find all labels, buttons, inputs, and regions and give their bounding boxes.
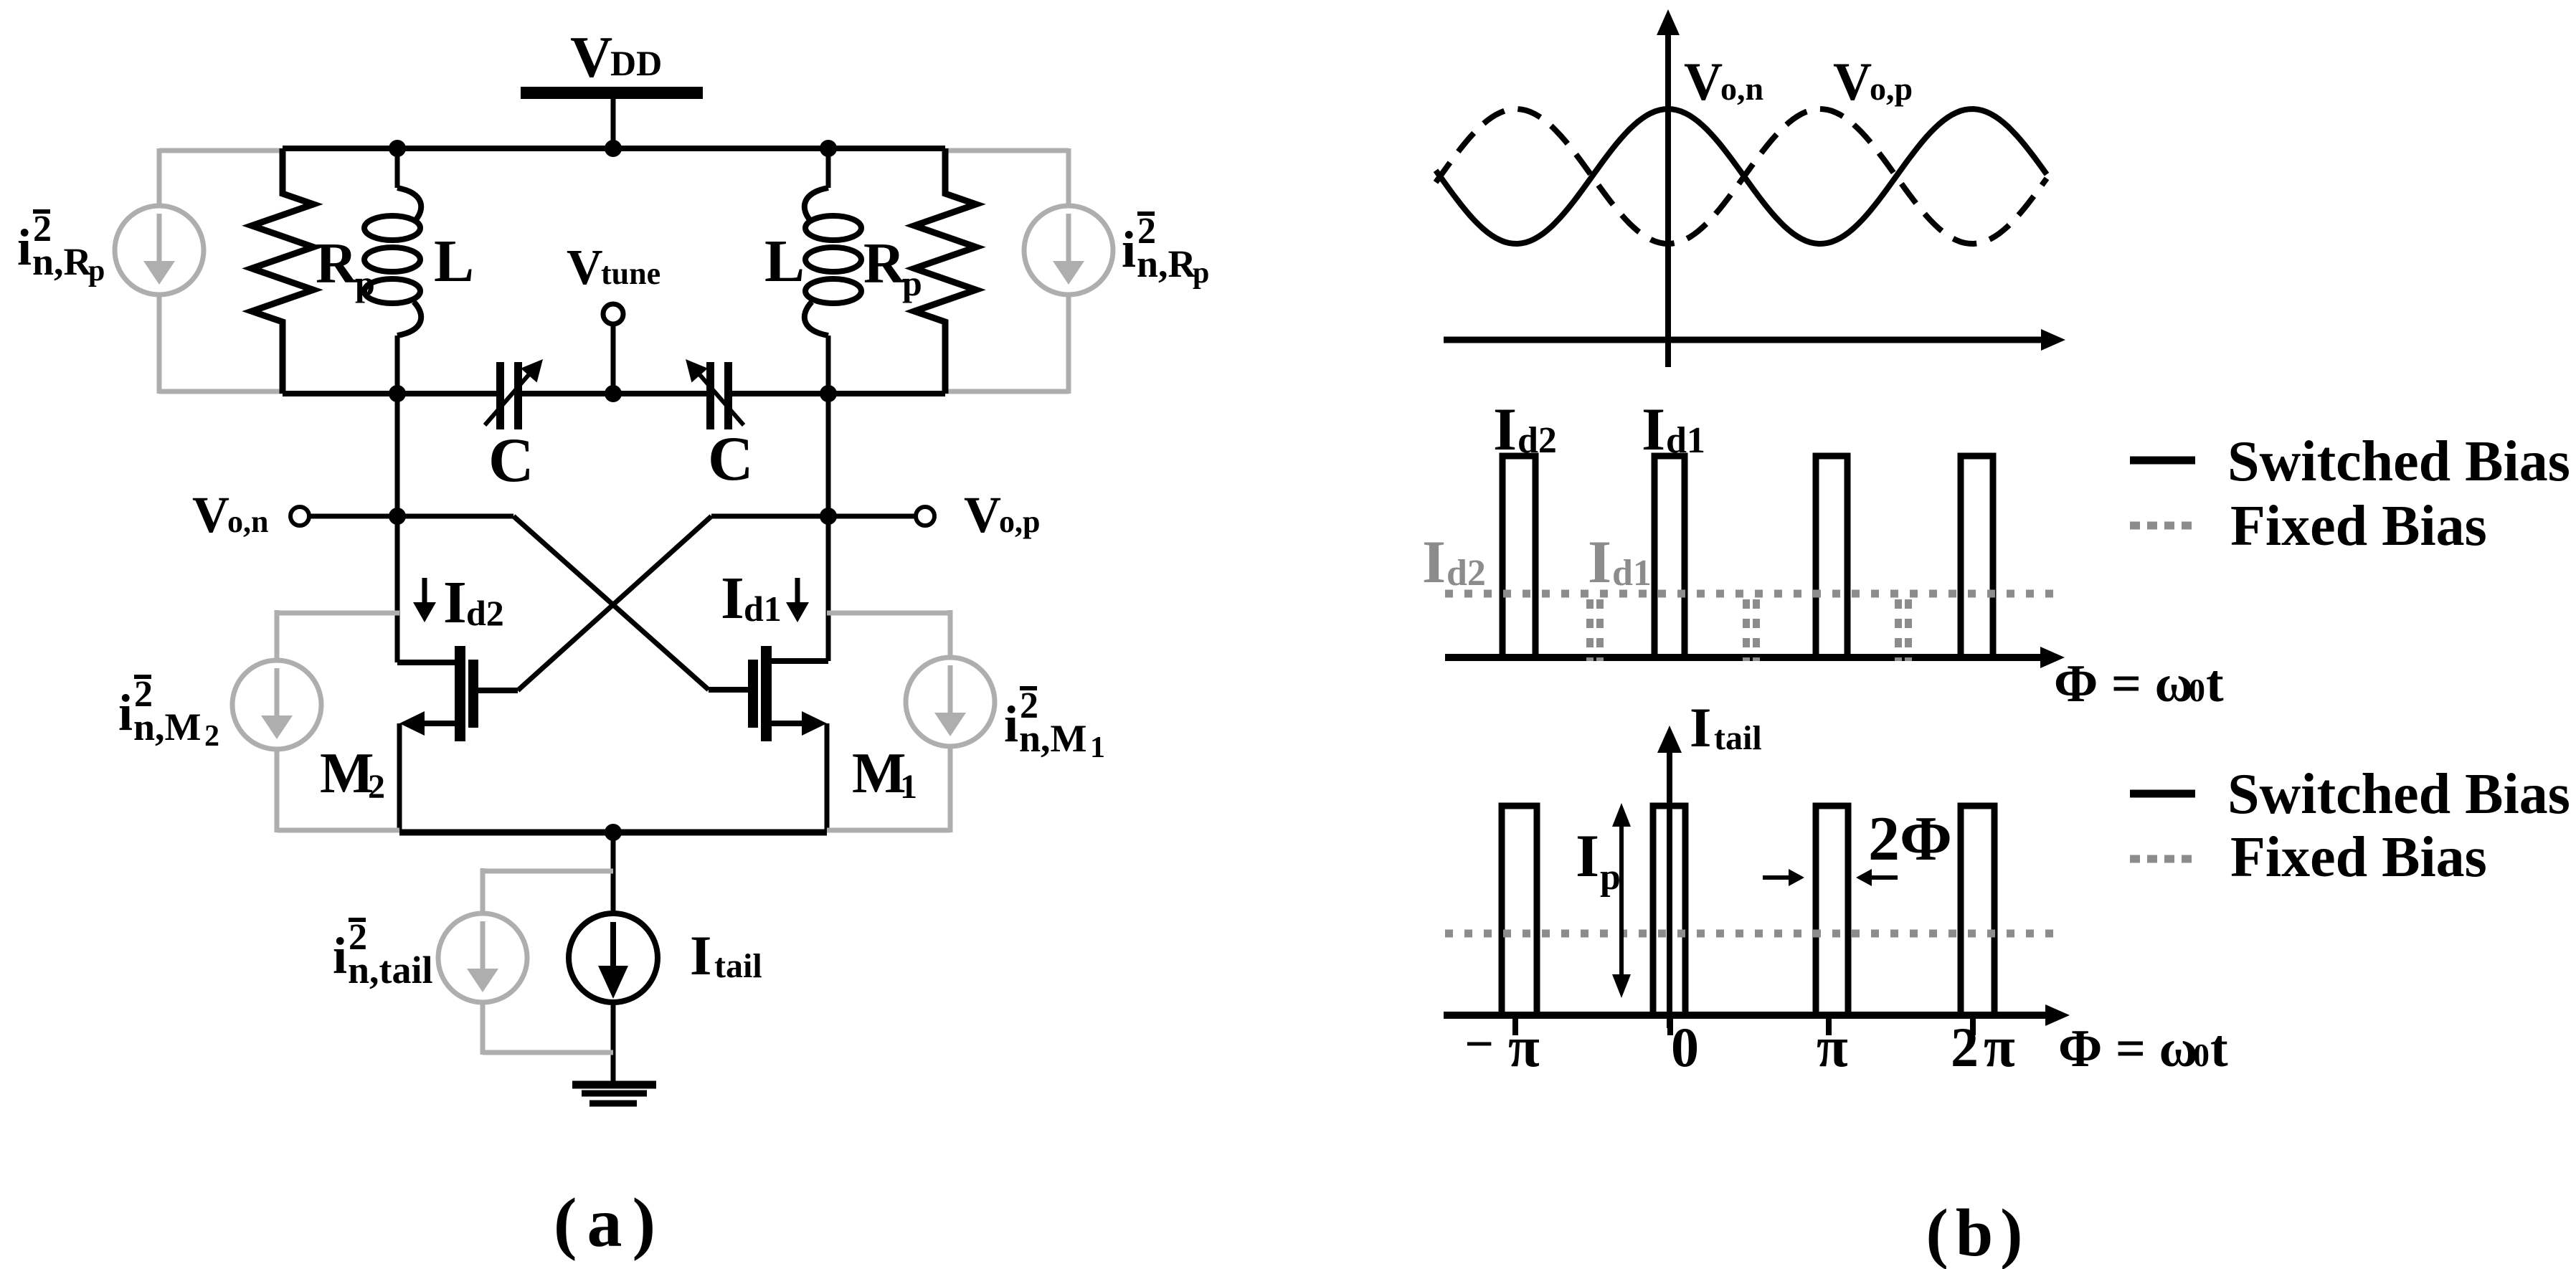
axis horizontal (middle plot)	[1445, 647, 2065, 668]
svg-text:Switched Bias: Switched Bias	[2227, 763, 2570, 826]
svg-text:d1: d1	[1612, 553, 1652, 594]
svg-text:I: I	[1690, 696, 1711, 759]
label i2n,M1	[1004, 685, 1105, 764]
tick mark (bottom plot)	[1970, 1019, 1976, 1035]
wire gray loop of M1 noise source	[827, 610, 950, 832]
arrow pulse-width right (points left)	[1856, 869, 1898, 886]
node Vtune junction	[605, 385, 622, 402]
fixed-bias level line (gray dotted, middle plot)	[1445, 590, 2055, 598]
svg-text:o,n: o,n	[1720, 70, 1763, 107]
node tail junction	[605, 824, 622, 841]
wire tail node to Itail source	[611, 832, 616, 913]
wire common source rail	[399, 830, 827, 836]
caption (b)	[1926, 1196, 2030, 1269]
resistor Rp right	[914, 148, 976, 394]
svg-text:DD: DD	[610, 43, 662, 83]
transistor M2	[397, 646, 518, 832]
svg-text:Φ = ω: Φ = ω	[2058, 1020, 2198, 1078]
label Id1 (middle, black)	[1642, 396, 1705, 463]
svg-text:i: i	[118, 684, 133, 741]
wire cross-couple right stub	[711, 514, 828, 519]
axis horizontal (bottom plot)	[1444, 1004, 2070, 1026]
svg-text:Fixed Bias: Fixed Bias	[2230, 495, 2487, 558]
label i2n,tail	[333, 917, 433, 992]
svg-text:p: p	[88, 255, 105, 287]
svg-text:i: i	[333, 927, 347, 984]
label i2n,Rp right	[1122, 211, 1209, 290]
svg-text:n,M: n,M	[133, 705, 202, 748]
terminal Vo,n (open circle)	[290, 507, 309, 526]
tick label 0	[1671, 1016, 1699, 1078]
svg-text:M: M	[320, 742, 374, 805]
svg-text:M: M	[852, 742, 906, 805]
svg-text:π: π	[1817, 1016, 1848, 1079]
label Vo,n (plot)	[1684, 52, 1763, 112]
svg-text:d2: d2	[466, 593, 504, 633]
legend 1 switched bias	[2130, 430, 2570, 493]
svg-text:V: V	[192, 486, 229, 543]
wire Itail to ground	[611, 1002, 616, 1081]
wire tank bottom rail (right segment)	[732, 391, 945, 396]
svg-text:V: V	[1833, 52, 1872, 112]
label L right	[764, 228, 805, 295]
label L left	[434, 228, 474, 295]
label Id2	[443, 569, 504, 636]
axis vertical (top plot)	[1657, 9, 1680, 367]
svg-text:tail: tail	[714, 947, 762, 985]
svg-text:d2: d2	[1517, 420, 1557, 461]
svg-text:I: I	[690, 924, 711, 987]
wire cross-couple diagonal to M2 gate	[518, 516, 711, 690]
svg-text:(a): (a)	[554, 1184, 666, 1262]
tick label pi	[1817, 1016, 1848, 1079]
wire Vtune to rail	[611, 323, 616, 394]
axis horizontal (top plot)	[1444, 329, 2065, 351]
svg-text:i: i	[17, 219, 32, 276]
wire gray loop of left noise source	[159, 148, 283, 394]
wire top rail	[283, 146, 945, 151]
svg-text:d2: d2	[1446, 553, 1486, 594]
node Vo,n	[389, 508, 406, 525]
label Itail	[690, 924, 762, 987]
fixed-bias pulse (gray dashed, middle plot)	[1746, 599, 1756, 661]
svg-text:C: C	[708, 424, 754, 494]
label C right	[708, 424, 754, 494]
svg-text:V: V	[570, 24, 612, 90]
node tank bottom left	[389, 385, 406, 402]
wire right column (tank to drain)	[826, 394, 831, 661]
pulse Id 3 (middle plot)	[1816, 456, 1847, 657]
tick mark (bottom plot)	[1512, 1019, 1518, 1035]
svg-text:p: p	[1600, 857, 1621, 898]
label Id1 (middle, gray)	[1588, 528, 1652, 596]
wire tank bottom rail (left segment)	[283, 391, 496, 396]
tick mark (bottom plot)	[1826, 1019, 1832, 1035]
waveform Vo,p (dashed sine)	[1436, 109, 2047, 244]
label M2	[320, 742, 385, 806]
svg-text:n,M: n,M	[1019, 717, 1087, 760]
svg-text:2: 2	[1951, 1016, 1979, 1078]
svg-text:t: t	[2210, 1020, 2228, 1078]
ground	[572, 1085, 656, 1103]
arrow Id2 (down)	[413, 578, 436, 622]
svg-text:p: p	[1193, 257, 1209, 290]
svg-text:I: I	[721, 565, 744, 632]
svg-text:2: 2	[204, 720, 219, 753]
pulse Id 4 (middle plot)	[1961, 456, 1993, 657]
wire Vo,n stub	[309, 514, 397, 519]
current source i2n,Rp left (gray circle with down arrow)	[115, 206, 204, 295]
tick label 2pi	[1951, 1016, 2015, 1079]
axis vertical Itail (bottom plot)	[1657, 726, 1682, 1028]
current source i2n,tail (gray circle with down arrow)	[438, 913, 527, 1002]
svg-text:i: i	[1004, 695, 1018, 753]
label Vtune	[567, 240, 660, 295]
power supply VDD bar	[521, 87, 703, 99]
pulse Itail 2 (bottom plot)	[1653, 806, 1685, 1015]
wire Vo,p stub	[828, 514, 916, 519]
label Vo,p	[964, 486, 1040, 543]
svg-text:I: I	[1642, 396, 1665, 463]
svg-text:I: I	[1576, 822, 1599, 890]
current source i2n,Rp right (gray circle with down arrow)	[1024, 206, 1113, 295]
svg-text:o,n: o,n	[227, 504, 268, 539]
label M1	[852, 742, 917, 806]
svg-text:d1: d1	[744, 589, 782, 629]
svg-text:p: p	[902, 263, 922, 303]
wire tank bottom rail (centre segment)	[522, 391, 706, 396]
wire VDD bar to top rail	[611, 99, 616, 148]
svg-text:V: V	[1684, 52, 1723, 112]
svg-text:n,R: n,R	[32, 240, 93, 283]
label Id2 (middle, gray)	[1422, 528, 1486, 596]
svg-text:2Φ: 2Φ	[1868, 804, 1952, 874]
fixed-bias pulse (gray dashed, middle plot)	[1898, 599, 1908, 661]
svg-text:0: 0	[2193, 1037, 2210, 1073]
label 2Phi	[1868, 804, 1952, 874]
node top-right (tank R)	[820, 140, 837, 157]
inductor L left	[364, 148, 421, 394]
fixed-bias level line (gray dotted, bottom plot)	[1445, 930, 2058, 938]
label i2n,M2	[118, 674, 219, 753]
node top-centre (VDD)	[605, 140, 622, 157]
vdd label VDD	[570, 24, 662, 90]
wire gray loop of M2 noise source	[277, 610, 399, 832]
label Id2 (middle, black)	[1493, 396, 1557, 463]
svg-text:1: 1	[900, 768, 917, 806]
node top-left (tank L)	[389, 140, 406, 157]
svg-text:Φ = ω: Φ = ω	[2054, 655, 2194, 713]
wire gray loop of tail noise source	[483, 868, 613, 1055]
label Id1	[721, 565, 782, 632]
arrow Ip (double-headed)	[1612, 803, 1631, 998]
node Vo,p	[820, 508, 837, 525]
legend 2 switched bias	[2130, 763, 2570, 826]
label i2n,Rp left	[17, 209, 105, 287]
current source i2n,M2 (gray circle with down arrow)	[232, 660, 321, 749]
svg-text:i: i	[1122, 221, 1136, 278]
axis label Phi = w0t (middle plot)	[2054, 655, 2224, 713]
arrow Id1 (down)	[786, 578, 809, 622]
wire cross-couple diagonal to M1 gate	[513, 516, 709, 690]
svg-text:n,R: n,R	[1137, 242, 1197, 285]
transistor M1	[709, 646, 828, 832]
fixed-bias pulse (gray dashed, middle plot)	[1590, 599, 1600, 661]
svg-text:C: C	[488, 426, 534, 495]
label Rp right	[863, 232, 922, 303]
wire gray loop of right noise source	[945, 148, 1069, 394]
legend 1 fixed bias	[2130, 495, 2487, 558]
wire cross-couple left stub	[397, 514, 513, 519]
svg-text:n,tail: n,tail	[348, 949, 433, 992]
pulse Id 1 (middle plot)	[1502, 456, 1535, 657]
tick label -pi	[1464, 1015, 1540, 1079]
inductor L right	[805, 148, 861, 394]
svg-text:R: R	[316, 232, 358, 295]
node tank bottom right	[820, 385, 837, 402]
caption (a)	[554, 1184, 666, 1262]
svg-text:(b): (b)	[1926, 1196, 2030, 1269]
svg-text:t: t	[2206, 655, 2224, 713]
varactor C right	[686, 359, 744, 429]
svg-text:o,p: o,p	[999, 504, 1040, 539]
svg-text:I: I	[1588, 528, 1611, 596]
resistor Rp left	[252, 148, 313, 394]
svg-text:π: π	[1984, 1016, 2015, 1079]
legend 2 fixed bias	[2130, 826, 2487, 889]
svg-text:V: V	[964, 486, 1001, 543]
svg-text:tune: tune	[601, 256, 660, 291]
pulse Itail 3 (bottom plot)	[1816, 806, 1848, 1015]
current source Itail (circle with down arrow)	[569, 913, 658, 1002]
current source i2n,M1 (gray circle with down arrow)	[906, 657, 995, 746]
terminal Vtune (open circle)	[603, 304, 623, 324]
varactor C left	[485, 359, 543, 429]
svg-text:0: 0	[1671, 1016, 1699, 1078]
svg-text:I: I	[1422, 528, 1446, 596]
svg-text:I: I	[443, 569, 467, 636]
svg-text:Switched Bias: Switched Bias	[2227, 430, 2570, 493]
label Vo,n	[192, 486, 268, 543]
svg-text:1: 1	[1090, 731, 1105, 764]
svg-text:π: π	[1508, 1016, 1540, 1079]
svg-text:I: I	[1493, 396, 1517, 463]
label Ip	[1576, 822, 1621, 898]
svg-text:Fixed Bias: Fixed Bias	[2230, 826, 2487, 889]
svg-text:V: V	[567, 240, 603, 295]
terminal Vo,p (open circle)	[916, 507, 934, 526]
svg-text:d1: d1	[1666, 420, 1705, 461]
svg-text:tail: tail	[1714, 719, 1762, 757]
tick mark (bottom plot)	[1667, 1019, 1673, 1035]
svg-text:o,p: o,p	[1870, 70, 1913, 107]
axis label Phi = w0t (bottom plot)	[2058, 1020, 2228, 1078]
arrow pulse-width left (points right)	[1763, 869, 1804, 886]
svg-text:L: L	[764, 228, 805, 295]
svg-text:L: L	[434, 228, 474, 295]
wire left column (tank to drain)	[395, 394, 400, 662]
pulse Itail 4 (bottom plot)	[1961, 806, 1994, 1015]
svg-text:2: 2	[368, 768, 385, 806]
waveform Vo,n (solid sine)	[1436, 109, 2047, 244]
svg-text:0: 0	[2189, 672, 2205, 708]
svg-text:−: −	[1464, 1015, 1494, 1073]
label C left	[488, 426, 534, 495]
label Itail (bottom plot)	[1690, 696, 1762, 759]
pulse Id 2 (middle plot)	[1654, 456, 1685, 657]
pulse Itail 1 (bottom plot)	[1502, 806, 1537, 1015]
label Rp left	[316, 232, 375, 303]
label Vo,p (plot)	[1833, 52, 1913, 112]
svg-text:R: R	[863, 232, 906, 295]
